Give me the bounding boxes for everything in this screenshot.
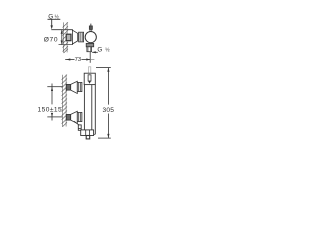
svg-text:Ø70: Ø70 [44,36,58,43]
svg-text:73: 73 [75,57,82,63]
svg-text:305: 305 [103,107,115,114]
svg-text:G ½: G ½ [97,47,110,54]
svg-text:150±15: 150±15 [38,107,63,114]
